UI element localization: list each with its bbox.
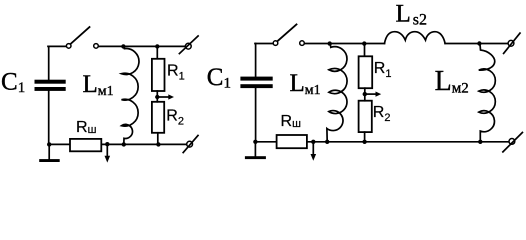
wire: stub to R1 (right) xyxy=(364,44,366,57)
node: L_m2 top junction xyxy=(477,41,481,45)
switch S (right circuit) lever xyxy=(277,24,296,41)
wire: top horizontal, switch to L_s2 (right) xyxy=(304,43,384,45)
svg-text:Lм1: Lм1 xyxy=(83,71,114,99)
wire: top horizontal left segment to switch pivot xyxy=(48,45,66,47)
wire: R2 bottom stub (right) xyxy=(364,132,366,142)
current arrow i (right, downward) xyxy=(312,142,314,155)
svg-text:R1: R1 xyxy=(374,60,392,80)
capacitor C1 (right) plates xyxy=(240,77,272,89)
resistor R2 (right) xyxy=(359,101,372,132)
svg-text:Lм1: Lм1 xyxy=(290,70,321,98)
wire: top horizontal from switch to top-right terminal xyxy=(98,45,185,47)
wire: R2 bottom stub (left) xyxy=(157,133,159,145)
inductor L_s2 humps xyxy=(385,32,446,44)
wire: wiper node to R2 (right) xyxy=(364,94,366,101)
svg-text:R1: R1 xyxy=(167,62,185,82)
node: L_m1 bottom junction (right) xyxy=(325,140,329,144)
node: ground junction (left) xyxy=(47,142,51,146)
wire: top horizontal to switch pivot (right) xyxy=(255,43,273,45)
terminal: top-right output (left circuit) xyxy=(185,43,191,49)
resistor R1 (right) xyxy=(359,56,373,88)
wire: R1 bottom to wiper node (left) xyxy=(156,91,158,97)
inductor L_m2 coil xyxy=(479,44,496,142)
svg-text:C1: C1 xyxy=(207,64,231,92)
resistor R1 (left) xyxy=(152,59,165,91)
node: R1 top junction (right) xyxy=(362,41,366,45)
wire: wiper node to R2 (left) xyxy=(156,97,158,102)
wire: R1 bottom to wiper node (right) xyxy=(364,88,366,94)
svg-text:Lм2: Lм2 xyxy=(435,66,469,97)
node: L_m1 top junction (right) xyxy=(328,41,332,45)
capacitor C1 (left) plates xyxy=(35,80,66,91)
switch S (right circuit) open contact xyxy=(300,41,305,46)
node: wiper tap (right) xyxy=(363,92,367,96)
terminal: bottom-right output (left circuit) xyxy=(187,141,193,147)
wire: left vertical branch (top wire corner to capacitor, capacitor to bottom wire) xyxy=(48,46,50,144)
terminal: top-right output (right circuit) xyxy=(508,40,514,46)
node: R2 bottom junction (right) xyxy=(362,140,366,144)
node: R2 bottom junction (left) xyxy=(156,142,160,146)
node: L_m1 top junction (left) xyxy=(121,44,125,48)
resistor R_sh (right) xyxy=(277,135,307,148)
current arrow i (left, downward) xyxy=(106,144,108,156)
switch S (right circuit) pivot contact xyxy=(273,41,278,46)
node: ground junction (right) xyxy=(253,140,257,144)
switch S (left circuit) lever xyxy=(71,27,90,44)
switch S (left circuit) pivot contact xyxy=(66,44,71,49)
resistor R2 (left) xyxy=(152,102,164,133)
svg-text:R2: R2 xyxy=(373,104,391,124)
wire: left vertical branch (right circuit) xyxy=(255,44,257,142)
bottom wire (right circuit) xyxy=(255,141,509,143)
svg-text:R2: R2 xyxy=(166,108,184,128)
wiper arrow (left) xyxy=(157,96,168,98)
switch S (left circuit) open contact xyxy=(94,44,99,49)
node: R1 top junction (left) xyxy=(155,44,159,48)
wire: stub to R1 (left) xyxy=(156,46,158,58)
ground (left) xyxy=(48,144,50,159)
resistor R_sh (left) xyxy=(70,139,101,151)
node: L_m2 bottom junction xyxy=(478,140,482,144)
svg-text:Rш: Rш xyxy=(281,113,302,130)
node: current arrow junction (left) xyxy=(105,142,109,146)
node: wiper tap (left) xyxy=(155,95,159,99)
svg-text:Rш: Rш xyxy=(76,119,97,136)
svg-text:C1: C1 xyxy=(1,69,25,97)
svg-text:Ls2: Ls2 xyxy=(396,1,428,29)
node: L_m1 bottom junction (left) xyxy=(122,142,126,146)
terminal: bottom-right output (right circuit) xyxy=(509,139,515,145)
bottom wire (left circuit) xyxy=(49,143,187,145)
inductor L_m1 (right) coil xyxy=(327,44,347,142)
wiper arrow (right) xyxy=(365,93,376,95)
wire: L_s2 to L_m2 junction (right) xyxy=(445,43,508,45)
ground (right) xyxy=(254,142,256,156)
inductor L_m1 (left) coil xyxy=(122,46,139,144)
node: current arrow junction (right) xyxy=(311,140,315,144)
